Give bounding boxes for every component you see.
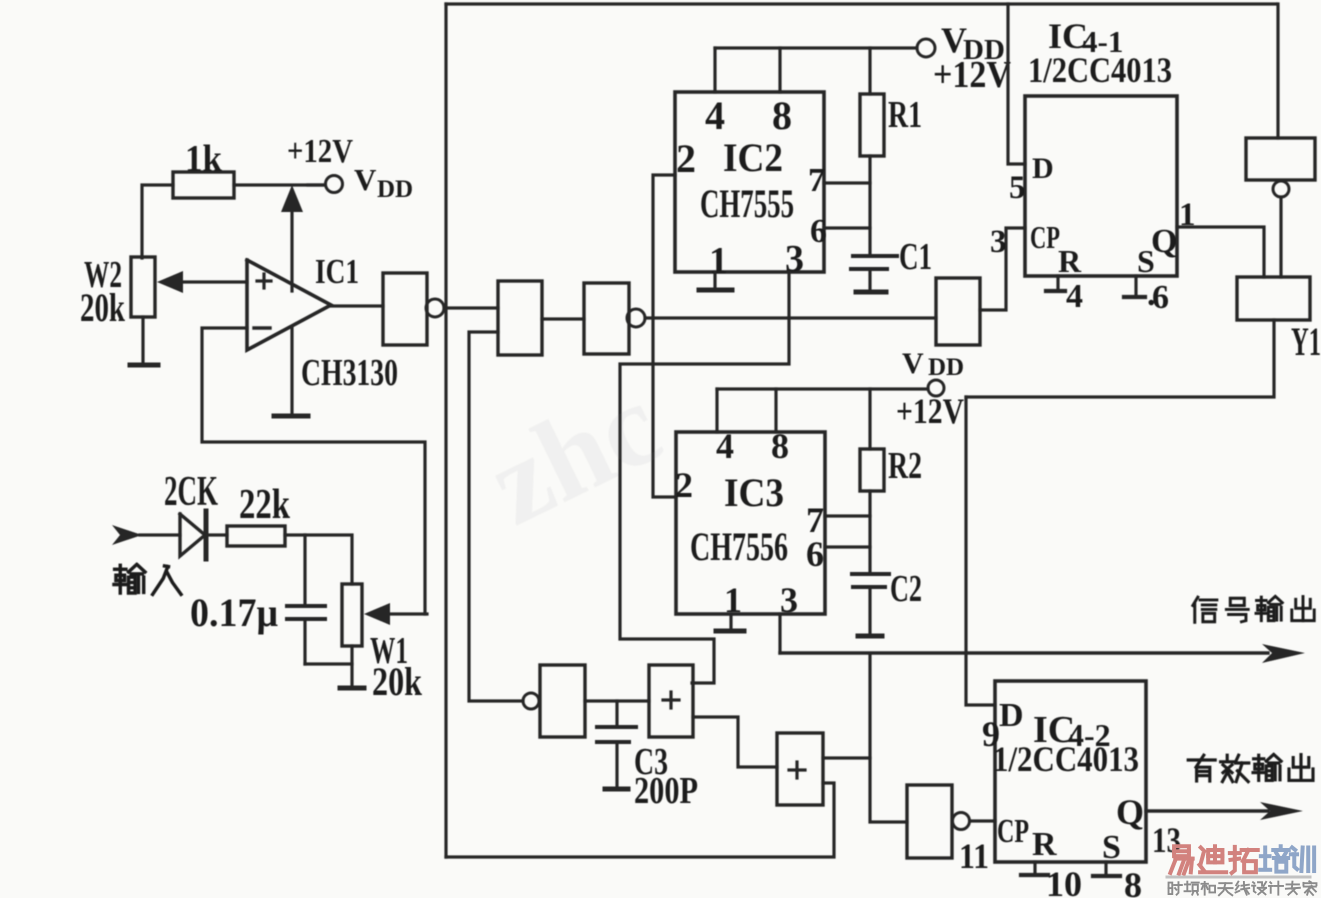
logo pei-xun (blue) — [1260, 846, 1314, 871]
svg-text:CP: CP — [1030, 219, 1060, 255]
power arrow to IC1 V+ pin — [281, 185, 303, 291]
wire gate B output to gate C — [693, 717, 777, 767]
diode 2CK — [164, 469, 227, 559]
wire W1 wiper lead — [386, 612, 427, 615]
wire 22k to W1 top — [285, 535, 352, 584]
capacitor 0.17u — [190, 535, 325, 664]
wire IC1 feedback loop to W1 wiper — [202, 328, 425, 614]
wire G3 output long run to G4 — [645, 316, 936, 319]
svg-text:DD: DD — [928, 354, 964, 381]
ground (IC3 pin1) — [716, 629, 744, 634]
logo underline — [1167, 876, 1310, 879]
power terminal VDD +12V (IC2) — [917, 20, 1011, 96]
svg-text:6: 6 — [810, 213, 827, 250]
wire IC2 pin8 lead — [778, 48, 781, 92]
svg-text:V: V — [354, 162, 377, 197]
svg-text:3: 3 — [780, 580, 798, 620]
capacitor C1 — [851, 236, 932, 291]
wire D line down to IC4-2 — [966, 397, 995, 705]
power terminal VDD +12V (IC3) — [896, 347, 964, 431]
wire IC4-2 Q output — [1146, 809, 1268, 812]
capacitor C3 200P — [597, 701, 698, 812]
wire G1 output to G2 — [444, 306, 498, 309]
wire IC3 VDD bus — [717, 387, 928, 390]
node signal output wire — [780, 651, 1268, 654]
gate G6 CP driver — [907, 785, 970, 858]
svg-text:Q: Q — [1151, 223, 1177, 260]
svg-text:Q: Q — [1116, 792, 1144, 832]
wire G4 output to IC4-1 CP — [980, 228, 1025, 310]
wire IC2 pin3 net to gate B — [620, 272, 789, 683]
wire IC2 pin4 lead — [713, 48, 716, 92]
resistor R1 — [860, 48, 922, 254]
wire IC2 pin1 lead — [713, 272, 716, 289]
svg-text:8: 8 — [771, 426, 789, 466]
wire IC2 VDD bus — [715, 46, 917, 49]
svg-text:4: 4 — [705, 93, 725, 138]
svg-text:IC3: IC3 — [724, 470, 784, 515]
svg-text:8: 8 — [1124, 865, 1142, 898]
svg-text:0.17μ: 0.17μ — [190, 590, 278, 635]
svg-text:C2: C2 — [890, 568, 922, 610]
svg-text:DD: DD — [377, 176, 413, 203]
wire gate C output to G6 — [823, 756, 870, 759]
svg-text:+12V: +12V — [287, 133, 353, 170]
svg-text:1: 1 — [709, 240, 728, 282]
svg-text:4: 4 — [716, 426, 734, 466]
svg-text:1: 1 — [724, 580, 742, 620]
logo yi-di-tuo (red) — [1170, 846, 1257, 873]
svg-text:IC1: IC1 — [315, 252, 359, 291]
potentiometer W1 20k — [342, 584, 423, 704]
svg-text:1/2CC4013: 1/2CC4013 — [1028, 50, 1172, 90]
label you-xiao-shu-chu (valid output) — [1188, 755, 1313, 782]
svg-text:6: 6 — [1152, 279, 1169, 316]
svg-text:C1: C1 — [899, 236, 932, 278]
svg-text:2: 2 — [675, 465, 693, 505]
svg-text:7: 7 — [808, 162, 825, 199]
svg-text:IC2: IC2 — [723, 135, 783, 180]
svg-text:R2: R2 — [888, 445, 922, 487]
svg-text:D: D — [1032, 152, 1054, 185]
power terminal VDD +12V (IC1) — [287, 133, 413, 203]
svg-text:4: 4 — [1066, 278, 1083, 315]
svg-text:1k: 1k — [185, 138, 223, 180]
wire IC3 pin7 — [825, 514, 870, 517]
gate B (+) — [649, 665, 693, 737]
inverter U5 (top right) — [1246, 4, 1315, 277]
wire G2 output to G3 — [542, 317, 584, 320]
wire IC3 pin8 lead — [774, 389, 777, 432]
potentiometer W2 20k — [80, 254, 183, 330]
op-amp IC1 CH3130 — [247, 252, 398, 394]
arrow valid output — [1260, 802, 1303, 820]
svg-text:R: R — [1032, 826, 1057, 863]
svg-text:2: 2 — [676, 136, 696, 181]
flip-flop IC4-1 1/2CC4013 — [990, 16, 1196, 316]
gate C (+) — [777, 733, 823, 805]
wire bottom bus to gate C — [446, 783, 834, 857]
IC IC2 CH7555 — [675, 92, 827, 282]
ground (W1) — [340, 686, 364, 691]
ground (C3) — [605, 787, 628, 792]
svg-text:5: 5 — [1009, 170, 1026, 206]
wire IC2 pin7 — [824, 181, 870, 184]
wire IC3 pin3 lead — [778, 614, 781, 653]
flip-flop IC4-2 1/2CC4013 — [959, 681, 1181, 898]
wire W2 bottom lead — [141, 317, 144, 363]
resistor 1k — [173, 138, 234, 198]
svg-text:R: R — [1058, 243, 1082, 279]
inverter gate G3 — [584, 283, 645, 354]
ground (W2) — [130, 363, 158, 368]
wire Y1 bottom to IC4-2 D — [966, 320, 1274, 397]
svg-text:R1: R1 — [888, 94, 922, 136]
svg-text:13: 13 — [1152, 820, 1181, 860]
ground (IC1) — [274, 414, 308, 419]
wire W1 bottom to cap bottom — [305, 646, 352, 687]
svg-text:2CK: 2CK — [164, 469, 218, 515]
IC IC3 CH7556 — [675, 426, 825, 620]
svg-text:zhc: zhc — [469, 358, 680, 550]
svg-text:11: 11 — [959, 836, 989, 876]
svg-text:1/2CC4013: 1/2CC4013 — [993, 739, 1139, 779]
wire IC1 V- lead down — [290, 327, 293, 414]
wire 1k left lead to W2 top — [142, 185, 173, 258]
ground (C2) — [858, 634, 882, 639]
svg-text:CH7555: CH7555 — [700, 181, 794, 226]
svg-text:+12V: +12V — [896, 391, 964, 431]
svg-text:Y1: Y1 — [1291, 319, 1321, 364]
wire CP drop from signal line — [870, 655, 907, 822]
arrow input — [112, 525, 180, 545]
svg-text:200P: 200P — [634, 770, 698, 812]
svg-text:20k: 20k — [80, 285, 126, 330]
resistor 22k — [227, 482, 290, 546]
wire main vertical bus — [444, 4, 447, 857]
wire IC4-1 Q output to Y1 — [1177, 227, 1264, 277]
wire gate A output to gate B — [585, 699, 649, 702]
wire IC3 pin6 — [825, 545, 870, 548]
svg-text:CP: CP — [997, 813, 1029, 850]
crystal Y1 — [1237, 277, 1321, 364]
svg-text:D: D — [999, 697, 1024, 734]
logo slogan (gray) — [1169, 881, 1317, 895]
wire IC3 pin1 lead — [729, 614, 732, 630]
svg-text:20k: 20k — [372, 659, 423, 704]
svg-text:CH3130: CH3130 — [301, 352, 398, 394]
gate A — [523, 665, 585, 737]
ground (IC2 pin1) — [699, 288, 732, 293]
wire top bus — [446, 2, 1276, 5]
resistor R2 — [860, 389, 922, 572]
wire IC2 pin6 — [824, 226, 870, 229]
wire IC3 pin4 lead — [715, 389, 718, 432]
arrow signal output — [1262, 644, 1305, 663]
wire 1k right lead to VDD terminal — [234, 183, 325, 186]
svg-text:6: 6 — [806, 534, 824, 574]
ground (C1) — [856, 290, 886, 295]
svg-text:V: V — [902, 347, 924, 380]
inverter gate G1 — [383, 273, 444, 345]
svg-text:CH7556: CH7556 — [690, 524, 788, 569]
svg-text:10: 10 — [1046, 864, 1082, 898]
svg-text:22k: 22k — [239, 482, 290, 528]
svg-text:+12V: +12V — [933, 54, 1011, 96]
inverter gate G2 — [498, 281, 542, 355]
gate G4 CP driver — [936, 278, 980, 345]
svg-text:3: 3 — [990, 224, 1007, 260]
wire G2 second input / gate A input bus — [469, 332, 523, 701]
label shu-ru (input) — [114, 565, 181, 595]
watermark — [469, 358, 680, 550]
svg-text:8: 8 — [772, 93, 792, 138]
wire W2 wiper to IC1 + input — [180, 280, 247, 283]
wire G6 output to IC4-2 CP — [970, 819, 995, 822]
wire IC1 output — [331, 304, 383, 307]
wire IC2 pin2 to IC3 pin2 bus — [653, 175, 676, 497]
label xin-hao-shu-chu (signal output) — [1193, 597, 1314, 623]
capacitor C2 — [852, 568, 922, 634]
wire IC4-1 D pin from top bus — [1008, 4, 1025, 164]
